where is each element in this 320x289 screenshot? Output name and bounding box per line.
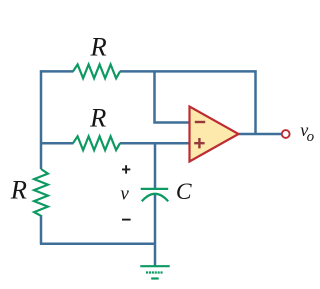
wire inverting input drop — [155, 71, 190, 122]
label v plus polarity — [122, 165, 130, 173]
svg-text:R: R — [90, 31, 107, 61]
svg-text:R: R — [89, 103, 106, 133]
op-amp U1 inverting input minus sign — [195, 121, 205, 123]
wire feedback right vertical — [254, 70, 257, 134]
svg-text:v: v — [120, 184, 129, 205]
svg-text:o: o — [307, 129, 315, 145]
wire top horizontal left of R1 — [40, 70, 74, 73]
wire capacitor branch upper — [154, 143, 157, 188]
output terminal node — [282, 130, 290, 138]
wire middle horizontal right of R2 to noninverting input — [120, 142, 190, 145]
wire op-amp output — [239, 133, 282, 136]
resistor R1 (top feedback) — [73, 65, 120, 79]
wire middle horizontal left of R2 — [41, 142, 74, 145]
wire top horizontal right of R1 — [120, 70, 257, 73]
op-amp U1 noninverting input plus sign — [194, 138, 204, 148]
resistor R3 (left vertical) — [34, 169, 48, 216]
svg-text:R: R — [10, 175, 27, 205]
wire left vertical bottom segment — [40, 215, 43, 244]
capacitor C1 curved plate — [142, 194, 168, 202]
wire left vertical top segment — [40, 70, 43, 169]
resistor R2 (middle input) — [73, 136, 120, 150]
ground — [140, 266, 169, 278]
wire bottom horizontal — [40, 242, 155, 245]
label v minus polarity — [122, 219, 131, 221]
capacitor C1 top plate — [141, 188, 169, 190]
op-amp U1 body — [190, 107, 239, 162]
wire capacitor branch lower to ground — [154, 195, 157, 266]
svg-text:C: C — [176, 179, 192, 205]
